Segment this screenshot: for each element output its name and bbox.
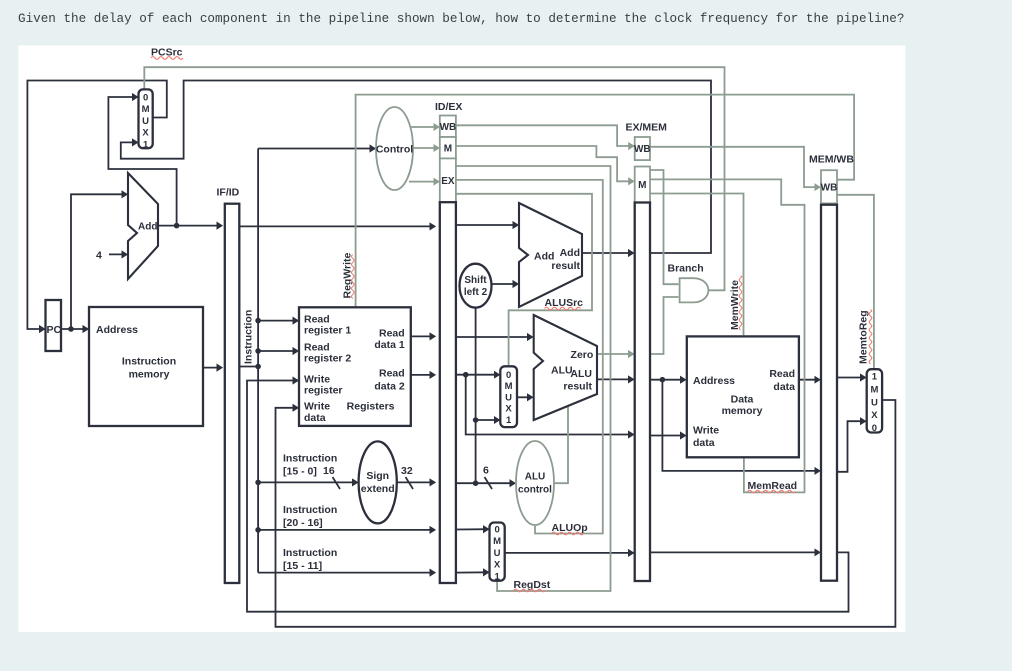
svg-text:data: data bbox=[693, 437, 715, 449]
wire: PC output to instruction memory Address bbox=[61, 328, 88, 330]
svg-text:0: 0 bbox=[506, 370, 511, 381]
svg-text:16: 16 bbox=[323, 465, 335, 477]
svg-text:EX: EX bbox=[441, 176, 455, 187]
svg-text:M: M bbox=[870, 385, 878, 396]
svg-text:U: U bbox=[871, 397, 878, 408]
wire: ALUSrc mux output to ALU bbox=[517, 396, 532, 398]
svg-text:Instruction: Instruction bbox=[283, 504, 337, 516]
wire: RegDst from ID/EX EX to RegDst mux select bbox=[456, 166, 611, 591]
wire: Zero flag from ALU to EX/MEM bbox=[597, 353, 633, 355]
wire: instruction to Read register 1 bbox=[258, 320, 297, 322]
svg-text:left 2: left 2 bbox=[464, 287, 488, 298]
svg-text:Read: Read bbox=[379, 328, 405, 340]
wire: MemtoReg from MEM/WB WB to MemtoReg mux select bbox=[837, 195, 874, 368]
wire: Read data 2 to ID/EX bbox=[411, 374, 435, 376]
wire: immediate vertical up to Shift left 2 bbox=[475, 308, 477, 484]
node: instruction bus junction at IF/ID output bbox=[255, 364, 261, 370]
svg-text:result: result bbox=[551, 260, 580, 272]
node: instruction [15-0] junction bbox=[255, 480, 261, 486]
svg-text:Sign: Sign bbox=[366, 470, 389, 482]
svg-text:Read: Read bbox=[379, 367, 405, 379]
svg-text:WB: WB bbox=[821, 183, 838, 194]
wire: ALU result from MEM/WB to MemtoReg mux input 0 bbox=[837, 421, 865, 472]
wire: branch target from EX/MEM back to PCSrc mux input 1 bbox=[121, 81, 711, 254]
sign extend (oval) bbox=[359, 441, 397, 523]
svg-text:[15 - 11]: [15 - 11] bbox=[283, 560, 322, 572]
svg-text:Instruction: Instruction bbox=[122, 356, 176, 368]
adder Add (PC+4) bbox=[128, 173, 158, 279]
wire: instruction [20-16] to ID/EX bbox=[258, 529, 434, 531]
wire: sign-extended immediate from ID/EX to ALU control bbox=[456, 482, 515, 484]
svg-text:Write: Write bbox=[304, 400, 330, 412]
node: read register 1 junction bbox=[255, 318, 261, 324]
svg-text:Read: Read bbox=[769, 368, 795, 380]
wire: ID/EX M to EX/MEM M bbox=[456, 146, 633, 181]
wire: ALU result from EX/MEM to data memory Address bbox=[650, 379, 685, 381]
svg-text:M: M bbox=[444, 143, 452, 154]
wire: store data from EX/MEM to data memory Write data bbox=[650, 435, 685, 437]
wire: instruction [15-11] to ID/EX bbox=[258, 572, 434, 574]
svg-text:data: data bbox=[773, 381, 795, 393]
wire: read data from MEM/WB to MemtoReg mux input 1 bbox=[837, 377, 865, 379]
wire: write register number from EX/MEM to MEM/WB bbox=[650, 551, 819, 553]
wire: branch Add result to EX/MEM bbox=[582, 252, 633, 254]
wire: instruction [15-11] from ID/EX to RegDst mux input 1 bbox=[456, 571, 488, 573]
wire: RegWrite from MEM/WB WB to Registers bbox=[356, 95, 854, 307]
svg-text:PC: PC bbox=[47, 324, 62, 336]
svg-text:ID/EX: ID/EX bbox=[435, 101, 462, 113]
svg-text:RegWrite: RegWrite bbox=[342, 252, 354, 298]
AND gate (branch) bbox=[680, 278, 709, 302]
control unit (oval) bbox=[376, 107, 413, 190]
wire: PC+4 from Add up to PCSrc mux input 0 bbox=[108, 97, 176, 226]
node: immediate to mux junction bbox=[473, 417, 479, 423]
node: instruction [20-16] junction bbox=[255, 527, 261, 533]
wire: ALU control output to ALU bbox=[554, 406, 568, 483]
wire: ALU result to EX/MEM bbox=[597, 378, 633, 380]
wire: Zero flag from EX/MEM to AND gate bbox=[650, 297, 679, 354]
svg-text:Address: Address bbox=[96, 324, 138, 336]
wire: Read data 1 from ID/EX to ALU bbox=[456, 336, 532, 338]
wire: data memory Read data to MEM/WB bbox=[799, 379, 819, 381]
svg-text:MemtoReg: MemtoReg bbox=[858, 310, 870, 364]
svg-text:memory: memory bbox=[129, 369, 170, 381]
wire: MemRead from EX/MEM M to data memory bottom bbox=[650, 179, 805, 492]
svg-text:Instruction: Instruction bbox=[283, 453, 337, 465]
data memory bbox=[687, 336, 799, 457]
wire: IF/ID instruction output to instruction bus bbox=[239, 366, 258, 368]
svg-text:Write: Write bbox=[693, 425, 719, 437]
wire: Add output to IF/ID bbox=[158, 225, 222, 227]
node: PC+4 junction on Add output bbox=[174, 223, 180, 229]
svg-text:X: X bbox=[871, 410, 878, 421]
wire: PCSrc mux output to PC input (feedback) bbox=[27, 81, 166, 330]
wire: Shift left 2 to branch Add bbox=[492, 283, 518, 285]
wire: ALUOp from ID/EX EX to ALU control bbox=[456, 180, 603, 534]
svg-text:data 1: data 1 bbox=[374, 339, 405, 351]
svg-text:control: control bbox=[518, 485, 552, 496]
wire: instruction [20-16] from ID/EX to RegDst mux input 0 bbox=[456, 528, 488, 530]
wire: ALUSrc from ID/EX EX to ALUSrc mux select bbox=[456, 194, 592, 365]
wire: instruction [15-0] to Sign extend bbox=[258, 481, 357, 483]
wire: Read data 1 to ID/EX bbox=[411, 335, 435, 337]
svg-text:M: M bbox=[142, 104, 150, 115]
wire: ID/EX WB to EX/MEM WB bbox=[456, 125, 633, 146]
svg-text:ALU: ALU bbox=[551, 365, 573, 377]
svg-text:Address: Address bbox=[693, 375, 735, 387]
svg-text:[20 - 16]: [20 - 16] bbox=[283, 517, 323, 529]
svg-text:1: 1 bbox=[506, 415, 512, 426]
svg-text:X: X bbox=[142, 128, 149, 139]
mux MemtoReg (1/0) bbox=[867, 369, 882, 432]
wire: Control to ID/EX M bbox=[413, 147, 438, 149]
question text bbox=[18, 11, 904, 26]
wire: immediate to ALUSrc mux input 1 bbox=[476, 419, 499, 421]
svg-text:Control: Control bbox=[376, 144, 413, 156]
svg-text:WB: WB bbox=[634, 144, 651, 155]
node: read data 2 junction bbox=[463, 372, 469, 378]
wire: ALU result bypass under data memory to MEM/WB bbox=[662, 380, 819, 471]
svg-text:memory: memory bbox=[722, 405, 763, 417]
wire: instruction memory output to IF/ID bbox=[203, 367, 222, 369]
svg-text:6: 6 bbox=[483, 465, 489, 477]
svg-text:Shift: Shift bbox=[464, 275, 487, 286]
wire: RegDst mux output to EX/MEM bbox=[505, 552, 633, 554]
svg-text:U: U bbox=[494, 548, 501, 559]
wire: read data 2 down and to EX/MEM (store data) bbox=[466, 375, 633, 435]
svg-text:IF/ID: IF/ID bbox=[217, 187, 240, 199]
adder branch Add bbox=[519, 203, 582, 307]
svg-text:1: 1 bbox=[872, 372, 878, 383]
svg-text:result: result bbox=[563, 381, 592, 393]
wire: write data return path from MemtoReg mux bbox=[276, 400, 896, 627]
svg-text:Registers: Registers bbox=[347, 401, 395, 413]
svg-text:extend: extend bbox=[361, 483, 395, 495]
mux RegDst (0/1) bbox=[490, 523, 505, 581]
PC register bbox=[46, 300, 62, 351]
svg-text:Read: Read bbox=[304, 341, 330, 353]
wire: instruction to Read register 2 bbox=[258, 350, 297, 352]
white canvas bbox=[19, 46, 906, 633]
wire: PC value up to Add input bbox=[71, 194, 127, 329]
node: immediate junction bbox=[473, 480, 479, 486]
wire: EX/MEM WB to MEM/WB WB bbox=[650, 147, 819, 187]
svg-text:WB: WB bbox=[440, 122, 457, 133]
svg-text:U: U bbox=[505, 392, 512, 403]
svg-text:[15 - 0]: [15 - 0] bbox=[283, 466, 317, 478]
svg-text:ALU: ALU bbox=[570, 368, 592, 380]
ALU bbox=[534, 315, 597, 420]
svg-text:0: 0 bbox=[143, 93, 148, 104]
mux PCSrc (0/1) bbox=[139, 89, 153, 148]
svg-text:Read: Read bbox=[304, 313, 330, 325]
wire: instruction bus to Control bbox=[258, 148, 374, 150]
wire: Control to ID/EX WB bbox=[411, 126, 439, 128]
svg-text:Data: Data bbox=[731, 393, 754, 405]
svg-text:X: X bbox=[494, 560, 501, 571]
svg-text:M: M bbox=[493, 536, 501, 547]
svg-text:Instruction: Instruction bbox=[283, 547, 337, 559]
wire: instruction vertical bus bbox=[257, 149, 259, 573]
mux ALUSrc (0/1) bbox=[500, 366, 517, 427]
svg-text:register: register bbox=[304, 385, 343, 397]
wire: PC+4 from ID/EX to branch Add bbox=[456, 224, 518, 226]
svg-text:register 1: register 1 bbox=[304, 325, 351, 337]
svg-text:1: 1 bbox=[143, 139, 149, 150]
svg-text:ALU: ALU bbox=[525, 472, 546, 483]
wire: PC+4 from IF/ID to ID/EX bbox=[239, 225, 434, 227]
instruction memory bbox=[89, 307, 203, 426]
wire: Branch signal from EX/MEM M to AND gate bbox=[650, 170, 679, 284]
svg-text:1: 1 bbox=[494, 571, 500, 582]
wire: Sign extend output to ID/EX bbox=[397, 481, 435, 483]
shift left 2 (oval) bbox=[460, 264, 492, 308]
wavy underline PCSrc bbox=[151, 57, 183, 60]
svg-text:M: M bbox=[638, 180, 646, 191]
svg-text:0: 0 bbox=[872, 423, 877, 434]
svg-text:Add: Add bbox=[560, 247, 580, 259]
svg-text:Add: Add bbox=[138, 222, 157, 233]
wire: Control to ID/EX EX bbox=[409, 181, 438, 183]
wire: Read data 2 from ID/EX to ALUSrc mux input 0 bbox=[456, 374, 499, 376]
svg-text:0: 0 bbox=[494, 525, 499, 536]
label: bus width 6 slash bbox=[485, 477, 493, 489]
svg-text:Write: Write bbox=[304, 373, 330, 385]
node: PC output junction bbox=[68, 326, 74, 332]
node: read register 2 junction bbox=[255, 348, 261, 354]
svg-text:Instruction: Instruction bbox=[243, 310, 255, 364]
svg-text:32: 32 bbox=[401, 465, 413, 477]
svg-text:MEM/WB: MEM/WB bbox=[809, 154, 854, 166]
svg-text:Branch: Branch bbox=[668, 263, 704, 275]
node: ALU result junction bbox=[660, 377, 666, 383]
svg-text:register 2: register 2 bbox=[304, 353, 351, 365]
svg-text:4: 4 bbox=[96, 250, 102, 262]
wire: PCSrc from AND gate to PCSrc mux select bbox=[144, 67, 724, 290]
ALU control (oval) bbox=[516, 441, 554, 525]
pipeline register IF/ID bbox=[225, 204, 240, 583]
registers file bbox=[299, 307, 411, 426]
svg-text:EX/MEM: EX/MEM bbox=[626, 122, 668, 134]
wire: constant 4 into Add bbox=[109, 253, 127, 255]
svg-text:M: M bbox=[505, 381, 513, 392]
svg-text:data 2: data 2 bbox=[374, 381, 405, 393]
svg-text:data: data bbox=[304, 412, 326, 424]
wire: write register number return path from MEM/WB bbox=[247, 381, 849, 612]
wire: MemWrite from EX/MEM M to data memory bbox=[650, 194, 744, 336]
label: bus width 32 slash bbox=[406, 477, 414, 489]
svg-text:U: U bbox=[142, 116, 149, 127]
svg-text:Zero: Zero bbox=[571, 349, 594, 361]
svg-text:X: X bbox=[505, 404, 512, 415]
label: bus width 16 slash bbox=[333, 477, 341, 489]
